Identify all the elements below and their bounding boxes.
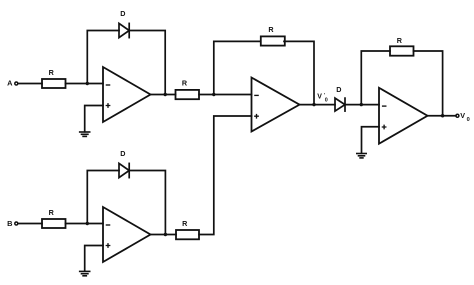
wire U3 output to diode D3 (300, 104, 336, 106)
resistor R2 (176, 79, 200, 100)
ground (U1) (80, 132, 90, 136)
svg-text:0: 0 (325, 98, 328, 104)
node junction U3 output / feedback (312, 103, 315, 106)
diode D3 (335, 85, 345, 111)
svg-text:R: R (397, 36, 403, 45)
wire R2 to U3 inverting input (199, 94, 252, 96)
wire U1 output (151, 94, 176, 96)
svg-text:V: V (317, 94, 322, 101)
wire U4 noninverting input to ground (362, 127, 380, 154)
svg-text:R: R (268, 25, 274, 34)
node junction U2 output / feedback (164, 233, 167, 236)
wire R1 to U1 inverting input (66, 83, 104, 85)
wire U2 output (151, 234, 177, 236)
svg-text:D: D (120, 9, 125, 18)
resistor R1 (42, 68, 66, 88)
node junction U4 output / feedback (441, 114, 444, 117)
wire feedback right of D1 down to U1 output (129, 31, 165, 95)
ground (U4) (357, 154, 366, 158)
op-amp U3 (252, 78, 300, 132)
wire R6 feedback right down to U4 output (414, 51, 443, 116)
svg-text:0: 0 (467, 117, 470, 123)
node junction D3 wire / R6 feedback (360, 103, 363, 106)
svg-text:B: B (7, 219, 12, 228)
wire R5 feedback right down to U3 output (284, 41, 314, 104)
svg-text:R: R (49, 208, 55, 217)
svg-text:D: D (336, 85, 341, 94)
wire D3 to U4 inverting input (345, 104, 379, 106)
op-amp U4 (379, 88, 428, 144)
diode D1 (119, 9, 129, 37)
wire U2 noninverting input to ground (85, 246, 103, 272)
wire B to R3 (18, 223, 42, 225)
svg-text:R: R (49, 68, 55, 77)
wire U1 noninverting input to ground (85, 106, 103, 132)
node label V'0 (317, 93, 328, 104)
wire R5 feedback top-left (214, 41, 260, 94)
wire R3 to U2 inverting input (66, 223, 104, 225)
resistor R6 (390, 36, 414, 56)
svg-text:R: R (182, 79, 188, 88)
wire R6 feedback up-left (361, 51, 390, 105)
resistor R4 (176, 219, 199, 240)
wire feedback up-left of D1 (87, 31, 119, 84)
node junction R2 wire / R5 feedback (212, 93, 215, 96)
wire feedback up-left of D2 (87, 171, 119, 224)
output terminal V0 (456, 111, 470, 123)
wire R4 up to U3 noninverting input (199, 116, 252, 235)
input terminal B (7, 219, 18, 228)
input terminal A (7, 79, 18, 88)
resistor R5 (261, 25, 285, 46)
wire U4 output (428, 115, 457, 117)
op-amp U2 (103, 207, 151, 262)
node junction at B-side feedback tap (86, 222, 89, 225)
svg-text:V: V (460, 111, 465, 120)
resistor R3 (42, 208, 66, 228)
diode D2 (119, 149, 129, 177)
node junction at A-side feedback tap (86, 82, 89, 85)
ground (U2) (80, 271, 90, 275)
wire feedback right of D2 down to U2 output (129, 171, 165, 235)
svg-text:R: R (182, 219, 188, 228)
svg-text:A: A (7, 79, 13, 88)
node junction U1 output / feedback (164, 93, 167, 96)
op-amp U1 (103, 67, 151, 122)
svg-text:D: D (120, 149, 125, 158)
wire A to R1 (18, 83, 42, 85)
